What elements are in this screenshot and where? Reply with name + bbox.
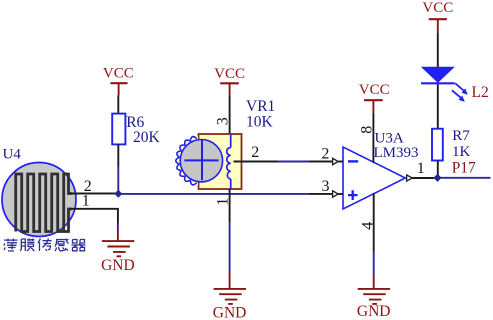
wire VCC2 to VR1 pin 3 xyxy=(229,96,231,134)
wire U4 pin 2 to node A xyxy=(70,193,117,195)
sensor U4 (film sensor) xyxy=(2,147,76,237)
ground GND1 xyxy=(101,230,135,274)
svg-text:GND: GND xyxy=(213,304,247,320)
wire VCC1 to R6 xyxy=(117,96,119,114)
wire VCC3 to op-amp pin 8 xyxy=(372,113,374,163)
svg-text:2: 2 xyxy=(321,145,329,162)
svg-text:LM393: LM393 xyxy=(374,145,419,161)
svg-text:1K: 1K xyxy=(452,144,471,160)
power VCC2 (above VR1) xyxy=(214,66,245,96)
wire VCC4 to LED anode xyxy=(437,33,439,67)
power VCC1 (above R6) xyxy=(103,66,134,96)
wire op-amp pin 4 to GND3 xyxy=(373,193,375,251)
svg-text:8: 8 xyxy=(358,126,375,134)
svg-text:1: 1 xyxy=(417,160,425,177)
膜 xyxy=(21,239,35,252)
svg-text:GND: GND xyxy=(357,303,391,320)
svg-text:GND: GND xyxy=(101,257,135,274)
svg-text:1: 1 xyxy=(215,198,232,206)
power VCC4 (above LED) xyxy=(422,0,453,33)
op-amp output pin 1 clip xyxy=(407,175,413,181)
传 xyxy=(38,239,52,252)
node A junction xyxy=(114,190,122,198)
op-amp U3A LM393 xyxy=(343,130,419,209)
svg-text:4: 4 xyxy=(360,222,377,230)
VR1 scalloped body xyxy=(176,136,198,186)
wire node B to P17 xyxy=(440,177,491,179)
svg-text:VCC: VCC xyxy=(359,82,390,98)
op-amp pin 3 clip xyxy=(333,191,339,197)
wire LED cathode to R7 xyxy=(437,84,439,129)
ground GND2 xyxy=(213,273,247,320)
svg-text:2: 2 xyxy=(251,144,259,161)
main wire node A to op-amp pin 3 xyxy=(120,193,310,195)
svg-text:3: 3 xyxy=(322,178,330,195)
resistor R6 xyxy=(112,114,160,147)
op-amp pin 2 clip xyxy=(333,158,339,164)
器 xyxy=(72,240,86,251)
potentiometer VR1 xyxy=(176,98,276,189)
wire VR1 pin 2 to op-amp pin 2 xyxy=(234,161,279,163)
svg-text:L2: L2 xyxy=(472,84,489,101)
svg-text:P17: P17 xyxy=(452,159,476,176)
wire op-amp output to node B xyxy=(412,177,434,179)
svg-text:VCC: VCC xyxy=(214,66,245,82)
svg-text:3: 3 xyxy=(215,117,232,125)
薄 xyxy=(4,239,18,252)
svg-text:20K: 20K xyxy=(133,129,161,146)
VR1 element coil xyxy=(227,134,231,189)
svg-text:10K: 10K xyxy=(246,113,274,130)
wire R7 to node B xyxy=(437,161,439,178)
svg-text:VCC: VCC xyxy=(422,0,453,16)
sensor U4 meander electrode xyxy=(16,174,72,232)
ground GND3 xyxy=(357,276,391,320)
node B junction xyxy=(433,174,441,182)
svg-text:R7: R7 xyxy=(452,128,470,144)
LED L2 xyxy=(421,67,489,102)
label 薄膜传感器 (film sensor, drawn glyphs) xyxy=(4,239,86,252)
wire R6 to node A (black pin stub then blue wire) xyxy=(117,144,119,166)
svg-text:U4: U4 xyxy=(3,147,22,163)
wire VR1 pin 1 to GND2 xyxy=(229,189,231,222)
svg-text:1: 1 xyxy=(82,192,90,209)
感 xyxy=(55,239,69,252)
wire U4 pin 1 to GND1 xyxy=(70,209,118,223)
resistor R7 xyxy=(432,128,471,160)
power VCC3 (op-amp pin 8) xyxy=(359,82,390,113)
svg-text:VCC: VCC xyxy=(103,66,134,82)
